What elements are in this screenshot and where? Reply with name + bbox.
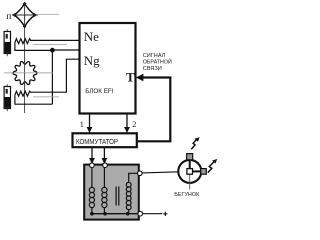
svg-text:1: 1 [80, 120, 84, 129]
svg-text:Ne: Ne [84, 29, 99, 44]
svg-text:СИГНАЛ: СИГНАЛ [143, 53, 166, 59]
svg-text:2: 2 [132, 120, 136, 129]
svg-text:п: п [6, 12, 11, 22]
svg-text:СВЯЗИ: СВЯЗИ [143, 66, 162, 72]
svg-text:Ng: Ng [84, 53, 100, 68]
svg-text:КОММУТАТОР: КОММУТАТОР [76, 137, 118, 146]
svg-text:Т: Т [126, 70, 135, 85]
svg-text:ОБРАТНОЙ: ОБРАТНОЙ [143, 58, 172, 66]
svg-text:БЛОК EFI: БЛОК EFI [85, 88, 113, 95]
svg-text:БЕГУНОК: БЕГУНОК [174, 192, 200, 198]
